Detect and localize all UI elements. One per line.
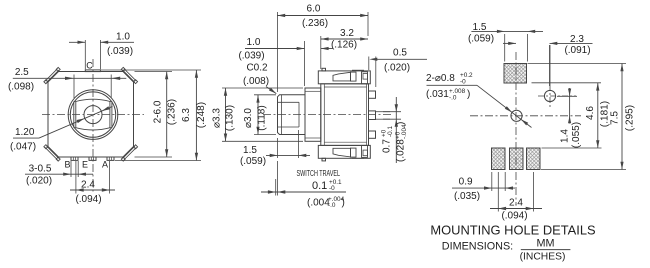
svg-text:(.236): (.236)	[167, 99, 178, 125]
svg-text:): )	[342, 198, 345, 209]
terminal tab A (bottom)	[107, 157, 114, 160]
extension lines right of body	[135, 71, 173, 73]
svg-text:-0.1: -0.1	[387, 126, 394, 137]
svg-text:⌀3.3: ⌀3.3	[212, 108, 223, 128]
dimension 2-6.0 body size	[166, 72, 168, 158]
dimension 0.9 pad width bottom	[491, 172, 493, 191]
side view collar	[305, 88, 321, 141]
button ring	[70, 92, 115, 137]
dimension 0.1 switch travel	[275, 179, 277, 196]
svg-text:(.028: (.028	[396, 139, 407, 162]
svg-text:0.9: 0.9	[459, 177, 473, 188]
svg-text:(.094): (.094)	[75, 194, 101, 205]
svg-text:(.031: (.031	[426, 89, 449, 100]
svg-text:(.091): (.091)	[564, 45, 590, 56]
svg-text:-.0: -.0	[328, 202, 336, 209]
svg-text:(INCHES): (INCHES)	[520, 252, 566, 263]
svg-text:(.020): (.020)	[26, 175, 52, 186]
svg-text:1.5: 1.5	[243, 145, 257, 156]
svg-text:E: E	[82, 160, 88, 170]
dimension 6.0 overall width	[276, 12, 278, 92]
mounting pad top	[504, 64, 527, 84]
mounting hole lower	[511, 110, 522, 121]
svg-text:(.126): (.126)	[331, 39, 357, 50]
svg-text:1.20: 1.20	[15, 127, 35, 138]
svg-text:(.059): (.059)	[468, 34, 494, 45]
side view main body	[321, 84, 369, 146]
svg-text:-.004: -.004	[401, 124, 408, 139]
svg-text:(.248): (.248)	[196, 102, 207, 128]
svg-text:2-6.0: 2-6.0	[153, 100, 164, 123]
mounting pad bottom-right	[527, 148, 541, 170]
svg-text:0.1: 0.1	[312, 180, 327, 192]
mounting horizontal centerline	[470, 115, 581, 117]
svg-text:(.118): (.118)	[257, 105, 268, 130]
left view: switch body outline with chamfered corners	[48, 72, 134, 158]
svg-text:(.236): (.236)	[302, 18, 328, 29]
side view centerline	[263, 114, 391, 116]
mounting pad bottom-left	[492, 148, 506, 170]
svg-text:2-⌀0.8: 2-⌀0.8	[426, 73, 455, 84]
svg-text:(.008): (.008)	[243, 76, 269, 87]
dimension 1.4 hole offset	[557, 95, 577, 97]
dimension phi 3.0 plunger diameter	[254, 94, 276, 96]
svg-text:1.0: 1.0	[116, 32, 130, 43]
svg-text:SWITCH TRAVEL: SWITCH TRAVEL	[297, 169, 341, 178]
svg-text:3-0.5: 3-0.5	[29, 163, 52, 174]
side view bottom cover clip	[318, 145, 370, 158]
svg-text:(.059): (.059)	[240, 156, 266, 167]
svg-text:(.039): (.039)	[107, 46, 133, 57]
side view body inner lines	[323, 84, 325, 146]
left view horizontal centerline	[42, 114, 144, 116]
svg-text:4.6: 4.6	[585, 106, 596, 120]
side view middle pin	[369, 111, 376, 120]
svg-text:(.039): (.039)	[238, 50, 264, 61]
dimension 1.0 (C tab width)	[84, 40, 86, 69]
svg-text:MOUNTING HOLE DETAILS: MOUNTING HOLE DETAILS	[430, 223, 595, 238]
dimension 2.5 across flats	[73, 75, 75, 99]
side view plunger	[278, 95, 306, 135]
svg-text:7.5: 7.5	[610, 111, 621, 125]
terminal tab E (bottom)	[89, 157, 96, 160]
svg-text:(.004: (.004	[307, 198, 330, 209]
dimension 3-0.5 terminal width	[70, 161, 72, 177]
svg-text:(.047): (.047)	[10, 141, 36, 152]
svg-text:DIMENSIONS:: DIMENSIONS:	[442, 241, 513, 253]
svg-text:3.2: 3.2	[340, 28, 354, 39]
dimension 2.3 hole spacing	[549, 45, 551, 86]
button shaft bridge arcs	[76, 99, 110, 101]
button center hole (1.20)	[84, 106, 102, 124]
svg-text:A: A	[102, 160, 108, 170]
svg-text:0.7: 0.7	[382, 139, 393, 153]
corner ear bottom-right	[123, 146, 135, 158]
svg-text:⌀3.0: ⌀3.0	[243, 108, 254, 128]
dimension 7.5	[528, 63, 627, 65]
svg-text:(.130): (.130)	[225, 105, 236, 131]
svg-text:-0: -0	[460, 79, 466, 86]
svg-text:): )	[396, 122, 407, 125]
dimension 4.6	[532, 82, 602, 84]
corner ear bottom-left	[47, 146, 59, 158]
left view vertical centerline	[92, 59, 94, 193]
dimension 0.5 stub length	[368, 57, 370, 71]
svg-text:(.098): (.098)	[8, 81, 34, 92]
side view terminal stub lower	[369, 131, 376, 138]
corner ear top-right	[123, 70, 135, 82]
svg-text:-0: -0	[329, 185, 335, 192]
dimension 1.5 pad width	[504, 34, 506, 62]
button outer circle	[68, 90, 118, 140]
side view top cover clip	[318, 71, 370, 84]
dimension 6.3 overall	[195, 70, 197, 161]
svg-text:2.5: 2.5	[15, 67, 29, 78]
svg-text:(.035): (.035)	[454, 191, 480, 202]
svg-text:-.0: -.0	[449, 95, 457, 102]
svg-text:B: B	[64, 160, 70, 170]
svg-text:(.020): (.020)	[384, 63, 410, 74]
svg-text:(.055): (.055)	[571, 122, 582, 148]
button shaft flats	[73, 102, 75, 128]
svg-text:1.5: 1.5	[473, 22, 487, 33]
svg-text:1.0: 1.0	[247, 37, 261, 48]
corner ear top-left	[47, 70, 59, 82]
mounting hole upper	[544, 90, 555, 101]
svg-text:1.4: 1.4	[560, 129, 571, 143]
upper hole centermarks	[549, 45, 551, 85]
dimension 2.4 pad spacing	[497, 172, 499, 212]
terminal tab C (top)	[85, 70, 100, 72]
mounting pad bottom-middle	[510, 148, 524, 170]
dimension phi 3.3 collar diameter	[222, 87, 303, 89]
dimension 1.5 plunger protrusion	[277, 138, 279, 158]
dimension 2.4 terminal span	[75, 161, 77, 194]
mounting vertical centerline	[515, 52, 517, 205]
svg-text:(.295): (.295)	[625, 105, 636, 131]
svg-text:0.5: 0.5	[393, 48, 407, 59]
svg-text:6.3: 6.3	[181, 108, 192, 122]
svg-text:(.094): (.094)	[501, 211, 527, 222]
svg-text:C: C	[86, 61, 93, 71]
svg-text:C0.2: C0.2	[246, 63, 268, 74]
svg-text:MM: MM	[537, 238, 555, 250]
svg-text:2.4: 2.4	[509, 197, 523, 208]
dimension 3.2 body width	[320, 36, 322, 69]
dimension 0.7 terminal thickness	[383, 111, 401, 113]
svg-text:6.0: 6.0	[307, 4, 321, 15]
svg-text:): )	[467, 89, 470, 100]
dimension 1.20 center hole	[13, 137, 39, 139]
terminal tab B (bottom)	[71, 157, 78, 160]
dimension 1.0 collar	[304, 41, 306, 86]
svg-text:2.3: 2.3	[570, 34, 584, 45]
svg-text:2.4: 2.4	[81, 179, 95, 190]
side view terminal stub upper	[369, 91, 376, 98]
